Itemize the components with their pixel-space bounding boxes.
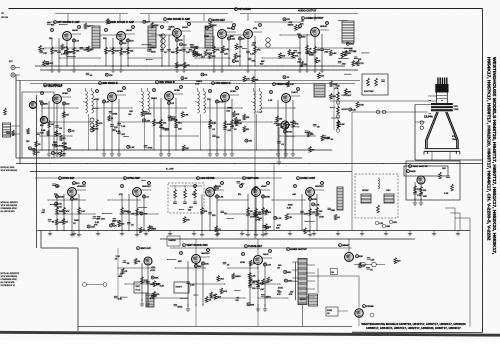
svg-text:10K: 10K bbox=[113, 226, 117, 228]
svg-text:10K: 10K bbox=[103, 38, 107, 40]
svg-text:68K: 68K bbox=[118, 276, 122, 278]
svg-text:3RD SOUND IF AMP: 3RD SOUND IF AMP bbox=[167, 18, 190, 21]
svg-text:27K: 27K bbox=[65, 114, 69, 116]
svg-text:330K: 330K bbox=[265, 197, 270, 199]
svg-text:2ND SOUND IF AMP: 2ND SOUND IF AMP bbox=[111, 21, 134, 24]
svg-text:1/2 W 10% UNLESS: 1/2 W 10% UNLESS bbox=[1, 205, 18, 207]
svg-text:470K: 470K bbox=[253, 281, 258, 283]
svg-text:12AU7: 12AU7 bbox=[290, 121, 297, 124]
svg-text:470K: 470K bbox=[319, 217, 324, 219]
svg-text:RF VIDEO IF AMP: RF VIDEO IF AMP bbox=[44, 85, 63, 88]
svg-text:4TH VIDEO IF: 4TH VIDEO IF bbox=[215, 82, 231, 85]
svg-text:2.2K: 2.2K bbox=[287, 207, 292, 209]
svg-text:DEFL: DEFL bbox=[454, 106, 459, 108]
svg-text:ALL CAP IN MFD: ALL CAP IN MFD bbox=[1, 281, 16, 284]
svg-text:10K: 10K bbox=[40, 133, 44, 135]
svg-text:10K: 10K bbox=[130, 51, 134, 53]
svg-text:10K: 10K bbox=[442, 168, 446, 170]
svg-text:5%: 5% bbox=[236, 300, 239, 302]
svg-text:330K: 330K bbox=[309, 54, 314, 56]
svg-text:HEIGHT: HEIGHT bbox=[176, 287, 182, 289]
svg-text:6K6GT: 6K6GT bbox=[320, 26, 328, 28]
svg-text:VERT OSC: VERT OSC bbox=[246, 177, 258, 180]
svg-text:470K: 470K bbox=[154, 25, 159, 27]
svg-text:68K: 68K bbox=[40, 125, 44, 127]
svg-text:3.3K: 3.3K bbox=[58, 207, 63, 209]
svg-text:39K: 39K bbox=[347, 91, 351, 93]
svg-text:39K: 39K bbox=[386, 226, 390, 228]
svg-text:1ST SOUND IF AMP: 1ST SOUND IF AMP bbox=[57, 21, 80, 24]
svg-text:68K: 68K bbox=[230, 36, 234, 38]
svg-text:47K: 47K bbox=[289, 294, 293, 296]
svg-text:27K: 27K bbox=[216, 50, 220, 52]
svg-text:OSC: OSC bbox=[386, 190, 391, 192]
svg-text:39K: 39K bbox=[423, 196, 427, 198]
svg-text:NOTE: ALL RESISTOR: NOTE: ALL RESISTOR bbox=[1, 272, 20, 275]
svg-text:470K: 470K bbox=[359, 105, 364, 107]
svg-text:39K: 39K bbox=[148, 113, 152, 115]
svg-text:6CB6: 6CB6 bbox=[117, 91, 123, 93]
svg-text:47K: 47K bbox=[277, 294, 281, 296]
svg-text:2.2K: 2.2K bbox=[277, 218, 282, 220]
svg-text:3.3K: 3.3K bbox=[118, 298, 123, 300]
svg-text:5%: 5% bbox=[236, 61, 239, 63]
svg-text:470K: 470K bbox=[219, 102, 224, 104]
svg-text:2.2K: 2.2K bbox=[190, 284, 195, 286]
svg-text:3.3K: 3.3K bbox=[195, 83, 200, 85]
svg-text:39K: 39K bbox=[252, 60, 256, 62]
svg-text:12AU7: 12AU7 bbox=[291, 91, 298, 94]
svg-text:47K: 47K bbox=[300, 23, 304, 25]
svg-text:12K: 12K bbox=[224, 54, 228, 56]
svg-text:3.3K: 3.3K bbox=[444, 193, 449, 195]
svg-text:5%: 5% bbox=[153, 228, 156, 230]
svg-text:12K: 12K bbox=[207, 99, 211, 101]
svg-text:39K: 39K bbox=[353, 51, 357, 53]
svg-text:330K: 330K bbox=[112, 113, 117, 115]
svg-text:1/2 W 10% UNLESS: 1/2 W 10% UNLESS bbox=[1, 170, 18, 172]
svg-text:68K: 68K bbox=[287, 272, 291, 274]
svg-text:6SN7GT: 6SN7GT bbox=[77, 186, 86, 188]
svg-text:12K: 12K bbox=[288, 217, 292, 219]
svg-text:68K: 68K bbox=[331, 210, 335, 212]
svg-text:27K: 27K bbox=[43, 53, 47, 55]
svg-text:5%: 5% bbox=[204, 74, 207, 76]
svg-text:6.8K: 6.8K bbox=[340, 124, 345, 126]
svg-text:10K: 10K bbox=[320, 76, 324, 78]
svg-text:6CB6: 6CB6 bbox=[230, 91, 236, 93]
svg-text:47K: 47K bbox=[248, 141, 252, 143]
svg-text:SYNC SEP: SYNC SEP bbox=[62, 177, 74, 180]
svg-text:2.2K: 2.2K bbox=[308, 133, 313, 135]
svg-text:47K: 47K bbox=[119, 194, 123, 196]
svg-text:1MEG: 1MEG bbox=[151, 98, 157, 100]
svg-text:27K: 27K bbox=[130, 41, 134, 43]
svg-text:B+ LINE: B+ LINE bbox=[166, 169, 174, 171]
svg-text:330K: 330K bbox=[177, 306, 182, 308]
svg-text:SYNC AMP: SYNC AMP bbox=[127, 177, 140, 180]
svg-text:47K: 47K bbox=[335, 88, 339, 90]
svg-text:ALL CAP IN MFD: ALL CAP IN MFD bbox=[1, 210, 16, 213]
svg-text:27K: 27K bbox=[361, 265, 365, 267]
svg-text:39K: 39K bbox=[172, 118, 176, 120]
svg-text:H654K17, H657K17, H659T17, H66: H654K17, H657K17, H659T17, H662K20, H663… bbox=[485, 57, 491, 241]
svg-text:3.3K: 3.3K bbox=[219, 197, 224, 199]
svg-text:10K: 10K bbox=[236, 114, 240, 116]
svg-text:6SN7GT: 6SN7GT bbox=[201, 253, 210, 255]
svg-text:NOTE: ALL RESI: NOTE: ALL RESI bbox=[1, 166, 15, 169]
svg-text:10K: 10K bbox=[87, 26, 91, 28]
svg-text:47K: 47K bbox=[246, 79, 250, 81]
svg-text:27K: 27K bbox=[252, 45, 256, 47]
svg-text:47K: 47K bbox=[99, 123, 103, 125]
svg-text:47K: 47K bbox=[167, 29, 171, 31]
svg-text:6AU6: 6AU6 bbox=[72, 29, 78, 32]
svg-text:5%: 5% bbox=[238, 194, 241, 196]
svg-text:WIDTH: WIDTH bbox=[300, 299, 306, 301]
svg-text:10K: 10K bbox=[205, 264, 209, 266]
svg-text:6.8K: 6.8K bbox=[115, 51, 120, 53]
svg-text:VIDEO DET: VIDEO DET bbox=[276, 83, 289, 86]
svg-text:2.2K: 2.2K bbox=[268, 100, 273, 102]
svg-text:470K: 470K bbox=[255, 219, 260, 221]
svg-text:47K: 47K bbox=[66, 211, 70, 213]
svg-text:330K: 330K bbox=[156, 123, 161, 125]
svg-text:AGC KEYER: AGC KEYER bbox=[200, 177, 214, 180]
svg-text:470K: 470K bbox=[148, 148, 153, 150]
svg-text:6AL5: 6AL5 bbox=[410, 170, 416, 173]
svg-text:5%: 5% bbox=[128, 114, 131, 116]
svg-text:3.3K: 3.3K bbox=[55, 153, 60, 155]
svg-text:2.2K: 2.2K bbox=[359, 63, 364, 65]
svg-text:330K: 330K bbox=[59, 211, 64, 213]
svg-text:6CB6: 6CB6 bbox=[62, 93, 68, 95]
svg-text:1MEG: 1MEG bbox=[235, 276, 241, 278]
svg-text:2.2K: 2.2K bbox=[160, 285, 165, 287]
svg-text:10K: 10K bbox=[267, 212, 271, 214]
svg-text:39K: 39K bbox=[61, 146, 65, 148]
svg-text:VOLTAGES AT 11: VOLTAGES AT 11 bbox=[1, 284, 15, 287]
svg-text:6.8K: 6.8K bbox=[332, 53, 337, 55]
svg-text:2.2K: 2.2K bbox=[61, 53, 66, 55]
svg-text:VERT OUT: VERT OUT bbox=[140, 248, 151, 250]
svg-text:H653K17, H654K17, H657K17, H65: H653K17, H654K17, H657K17, H659T17, H662… bbox=[366, 326, 461, 330]
svg-text:6AU6: 6AU6 bbox=[126, 29, 132, 32]
svg-text:27K: 27K bbox=[257, 50, 261, 52]
svg-text:6.8K: 6.8K bbox=[184, 114, 189, 116]
svg-text:6CB6: 6CB6 bbox=[174, 90, 180, 92]
svg-text:BRIGHT: BRIGHT bbox=[342, 109, 350, 111]
svg-text:470K: 470K bbox=[312, 199, 317, 201]
svg-text:VERT BLOCK OSC: VERT BLOCK OSC bbox=[186, 244, 208, 247]
svg-text:27K: 27K bbox=[179, 40, 183, 42]
svg-text:TP1: TP1 bbox=[1, 13, 4, 15]
svg-text:68K: 68K bbox=[359, 256, 363, 258]
svg-text:12K: 12K bbox=[352, 109, 356, 111]
svg-text:6SN7GT: 6SN7GT bbox=[315, 186, 324, 188]
svg-text:1ST AUDIO: 1ST AUDIO bbox=[238, 8, 251, 11]
svg-text:NOTE: ALL RESISTO: NOTE: ALL RESISTO bbox=[1, 201, 19, 204]
svg-text:10K: 10K bbox=[319, 211, 323, 213]
svg-text:330K: 330K bbox=[59, 197, 64, 199]
svg-text:330K: 330K bbox=[151, 52, 156, 54]
svg-text:68K: 68K bbox=[178, 261, 182, 263]
svg-text:5%: 5% bbox=[246, 129, 249, 131]
svg-text:OTHERWISE SPEC.: OTHERWISE SPEC. bbox=[1, 208, 18, 210]
svg-text:2.2K: 2.2K bbox=[130, 147, 135, 149]
svg-text:470K: 470K bbox=[150, 270, 155, 272]
svg-text:10K: 10K bbox=[238, 123, 242, 125]
svg-text:2.2K: 2.2K bbox=[238, 47, 243, 49]
svg-text:3.3K: 3.3K bbox=[250, 54, 255, 56]
svg-text:10K: 10K bbox=[76, 51, 80, 53]
svg-text:470K: 470K bbox=[287, 132, 292, 134]
svg-text:47K: 47K bbox=[68, 52, 72, 54]
svg-text:OTHERWISE SPEC.: OTHERWISE SPEC. bbox=[1, 279, 18, 281]
svg-text:AUDIO OUTPUT: AUDIO OUTPUT bbox=[305, 17, 324, 20]
svg-text:12K: 12K bbox=[39, 101, 43, 103]
svg-text:39K: 39K bbox=[44, 104, 48, 106]
svg-text:2.2K: 2.2K bbox=[251, 275, 256, 277]
svg-text:39K: 39K bbox=[251, 304, 255, 306]
svg-text:VERT: VERT bbox=[136, 286, 140, 288]
svg-text:2.2K: 2.2K bbox=[315, 204, 320, 206]
svg-text:1MEG: 1MEG bbox=[287, 25, 293, 27]
svg-text:YOKE: YOKE bbox=[454, 109, 460, 111]
svg-text:AUDIO OUTPUT: AUDIO OUTPUT bbox=[298, 10, 317, 13]
svg-text:CONTRAST: CONTRAST bbox=[342, 94, 353, 97]
svg-text:12K: 12K bbox=[199, 55, 203, 57]
svg-text:5%: 5% bbox=[63, 138, 66, 140]
svg-text:39K: 39K bbox=[96, 219, 100, 221]
svg-text:2ND VIDEO IF: 2ND VIDEO IF bbox=[102, 82, 118, 85]
svg-text:12K: 12K bbox=[417, 195, 421, 197]
svg-text:3.3K: 3.3K bbox=[225, 49, 230, 51]
svg-text:68K: 68K bbox=[171, 52, 175, 54]
svg-text:6AL5: 6AL5 bbox=[263, 253, 269, 256]
svg-text:12K: 12K bbox=[109, 75, 113, 77]
svg-text:47K: 47K bbox=[49, 63, 53, 65]
svg-text:470K: 470K bbox=[94, 99, 99, 101]
svg-text:3RD VIDEO IF: 3RD VIDEO IF bbox=[159, 81, 175, 84]
svg-text:FOCUS: FOCUS bbox=[366, 306, 374, 308]
svg-text:68K: 68K bbox=[255, 79, 259, 81]
svg-text:OFF-ON: OFF-ON bbox=[1, 17, 9, 19]
svg-text:5%: 5% bbox=[344, 55, 347, 57]
svg-text:1MEG: 1MEG bbox=[265, 297, 271, 299]
svg-text:39K: 39K bbox=[95, 128, 99, 130]
svg-text:6SN7: 6SN7 bbox=[261, 186, 267, 188]
svg-text:12K: 12K bbox=[57, 146, 61, 148]
svg-text:12K: 12K bbox=[276, 227, 280, 229]
svg-text:2.2K: 2.2K bbox=[212, 123, 217, 125]
svg-text:ION TRAP: ION TRAP bbox=[364, 90, 374, 93]
svg-text:68K: 68K bbox=[237, 56, 241, 58]
svg-text:6AU6: 6AU6 bbox=[182, 26, 188, 29]
svg-text:WESTINGHOUSE MODELS H648T20, H: WESTINGHOUSE MODELS H648T20, H649T17, H6… bbox=[491, 57, 497, 255]
svg-text:TRAP: TRAP bbox=[452, 138, 458, 141]
svg-text:12LP4A: 12LP4A bbox=[424, 116, 433, 119]
svg-text:330K: 330K bbox=[212, 25, 217, 27]
svg-text:47K: 47K bbox=[278, 124, 282, 126]
svg-text:12K: 12K bbox=[371, 260, 375, 262]
svg-text:1/2 W 10% UNLESS: 1/2 W 10% UNLESS bbox=[1, 276, 18, 278]
svg-text:HORIZ OUTPUT: HORIZ OUTPUT bbox=[290, 249, 307, 251]
svg-text:PHASE DET: PHASE DET bbox=[248, 245, 262, 248]
svg-text:2.2K: 2.2K bbox=[121, 126, 126, 128]
svg-text:HORIZ: HORIZ bbox=[362, 190, 369, 192]
svg-text:3.3K: 3.3K bbox=[290, 84, 295, 86]
svg-text:DAMPER: DAMPER bbox=[169, 239, 177, 242]
svg-text:68K: 68K bbox=[198, 266, 202, 268]
svg-text:HORIZ CONT: HORIZ CONT bbox=[300, 177, 315, 180]
svg-text:47K: 47K bbox=[186, 65, 190, 67]
svg-text:68K: 68K bbox=[155, 278, 159, 280]
svg-text:6SN7GT: 6SN7GT bbox=[142, 186, 151, 188]
svg-text:HORIZ: HORIZ bbox=[327, 310, 332, 312]
svg-text:470K: 470K bbox=[178, 65, 183, 67]
svg-text:470K: 470K bbox=[240, 262, 245, 264]
svg-text:RATIO DET: RATIO DET bbox=[212, 19, 225, 22]
svg-text:HOLD: HOLD bbox=[136, 289, 141, 291]
svg-text:2.2K: 2.2K bbox=[81, 211, 86, 213]
